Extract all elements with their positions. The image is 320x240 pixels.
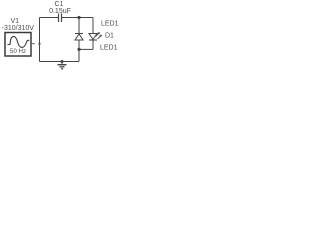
wire: top rail right of C1 [62,17,93,19]
D1 LED emission arrows [96,33,102,40]
svg-text:-310/310V: -310/310V [2,25,35,32]
svg-text:V1: V1 [11,18,20,25]
wire: bottom join rail between diodes [79,48,93,50]
svg-text:C1: C1 [55,1,64,8]
wire: LED1 anode drop [78,18,80,34]
node junction dot at ground [61,60,64,63]
wire: LED1 bottom lead [78,40,80,49]
diode D1 (right, pointing down) [89,34,97,40]
wire: bottom rail [40,61,80,63]
node junction dot at diode join [77,48,80,51]
node junction dot at top rail [77,16,80,19]
svg-text:50 Hz: 50 Hz [10,48,26,55]
svg-text:LED1: LED1 [100,45,118,52]
capacitor C1 plates [59,14,62,23]
svg-text:D1: D1 [105,32,114,39]
svg-text:LED1: LED1 [101,20,119,27]
V1 terminal knob [38,43,40,45]
voltage source V1 box [5,33,31,57]
wire: top rail left of C1 [40,17,59,19]
diode LED1 (left, pointing up) [75,33,83,35]
wire: D1 bottom lead [92,40,94,49]
ground [61,62,63,65]
V1 plus terminal tick [31,43,35,45]
wire: D1 drop from top rail corner [92,18,94,34]
svg-text:0.15uF: 0.15uF [49,8,71,15]
V1 sine waveform [8,36,30,47]
wire: left vertical from source to rails [39,18,41,62]
wire: vertical down to bottom rail [78,49,80,61]
